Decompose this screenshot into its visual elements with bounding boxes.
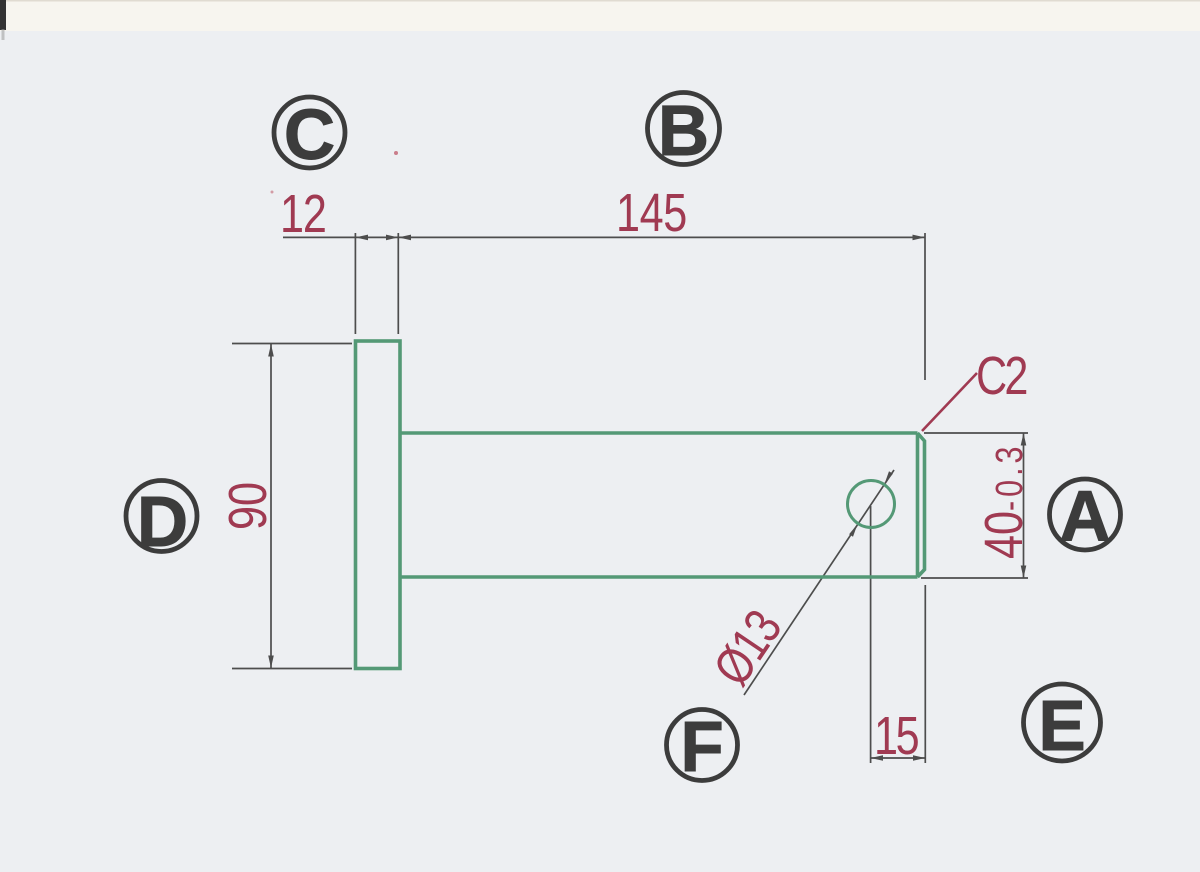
- extension line hole center vertical: [870, 506, 872, 763]
- dimension line 15 horizontal: [871, 757, 926, 759]
- arrow 15 left: [871, 755, 883, 761]
- extension line head bottom: [232, 668, 352, 670]
- balloon circle A: [1050, 479, 1121, 550]
- top cream scanner strip: [0, 0, 1200, 31]
- svg-text:F: F: [680, 708, 723, 787]
- arrow 40 top: [1021, 433, 1027, 446]
- part end face with chamfer: [918, 433, 925, 577]
- svg-text:D: D: [137, 483, 188, 562]
- extension line shaft end lower vertical: [924, 585, 926, 763]
- svg-text:C: C: [284, 96, 335, 175]
- arrow 145 right: [913, 235, 926, 241]
- gray smudge under corner mark: [2, 29, 5, 40]
- red leader line C2: [922, 373, 977, 431]
- extension line head right x398: [397, 233, 399, 334]
- arrow 90 top: [268, 344, 274, 357]
- arrow 40 bottom: [1021, 566, 1027, 579]
- dimension line 90 vertical: [270, 344, 272, 668]
- part head rectangle: [356, 341, 401, 669]
- arrow 15 right: [913, 755, 925, 761]
- arrow 90 bottom: [268, 656, 274, 669]
- extension line head top: [232, 343, 352, 345]
- part hole circle: [848, 481, 895, 528]
- arrow 12 left: [355, 235, 368, 241]
- arrow 12 right: [386, 235, 398, 241]
- balloon circle E: [1024, 684, 1101, 761]
- part shaft bottom edge: [400, 575, 918, 579]
- extension line shaft end x925: [924, 233, 926, 380]
- faint scan line top edge: [0, 0, 1200, 2]
- dimension line 40 vertical: [1023, 433, 1025, 578]
- svg-text:B: B: [658, 92, 709, 171]
- black scan mark top-left corner: [0, 0, 6, 30]
- arrow diameter bottom: [849, 524, 858, 537]
- svg-text:A: A: [1059, 478, 1110, 557]
- extension line shaft bottom right: [921, 577, 1028, 579]
- dimension line 12 and 145 horizontal: [283, 236, 925, 238]
- balloon circle B: [648, 93, 720, 165]
- balloon circle C: [274, 97, 345, 168]
- svg-text:145: 145: [616, 184, 687, 244]
- balloon circle F: [667, 710, 738, 781]
- svg-text:C2: C2: [976, 347, 1026, 407]
- svg-text:90: 90: [219, 482, 279, 530]
- svg-text:15: 15: [874, 707, 919, 767]
- balloon circle D: [126, 481, 197, 552]
- part chamfer edge line: [916, 433, 920, 577]
- red speck dirt 2: [271, 191, 274, 194]
- arrow diameter top: [884, 471, 893, 484]
- arrow 145 left: [398, 235, 411, 241]
- svg-text:E: E: [1038, 687, 1085, 766]
- extension line shaft top right: [924, 432, 1028, 434]
- extension line head left x355: [354, 233, 356, 334]
- part shaft top edge: [400, 431, 918, 435]
- leader line diameter 13: [744, 470, 894, 695]
- svg-text:12: 12: [280, 185, 326, 245]
- red speck dirt 1: [394, 151, 398, 155]
